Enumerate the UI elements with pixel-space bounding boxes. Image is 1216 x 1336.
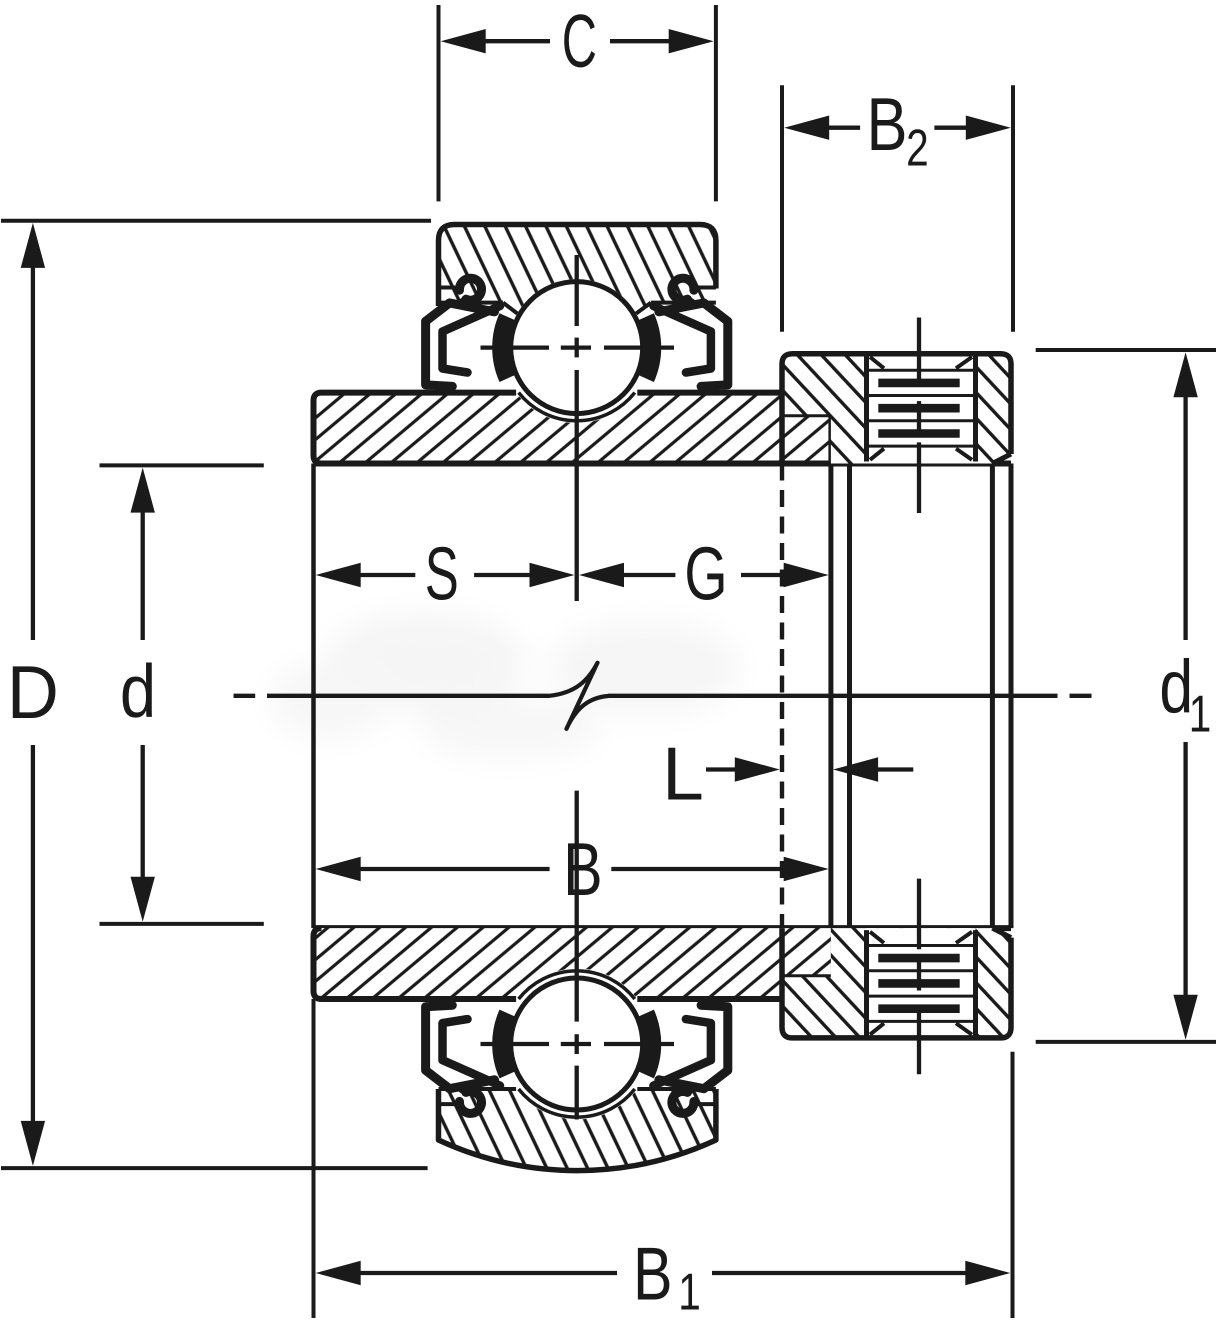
svg-text:1: 1 bbox=[678, 1263, 701, 1321]
svg-text:C: C bbox=[562, 1, 597, 84]
svg-text:G: G bbox=[684, 531, 727, 615]
svg-text:D: D bbox=[7, 650, 59, 735]
svg-text:L: L bbox=[662, 732, 704, 816]
svg-text:S: S bbox=[425, 532, 459, 616]
svg-text:2: 2 bbox=[906, 119, 929, 177]
svg-text:d: d bbox=[120, 649, 156, 733]
svg-text:B: B bbox=[563, 828, 603, 911]
svg-text:1: 1 bbox=[1189, 684, 1212, 742]
svg-text:B: B bbox=[633, 1233, 673, 1316]
svg-text:B: B bbox=[866, 82, 907, 166]
